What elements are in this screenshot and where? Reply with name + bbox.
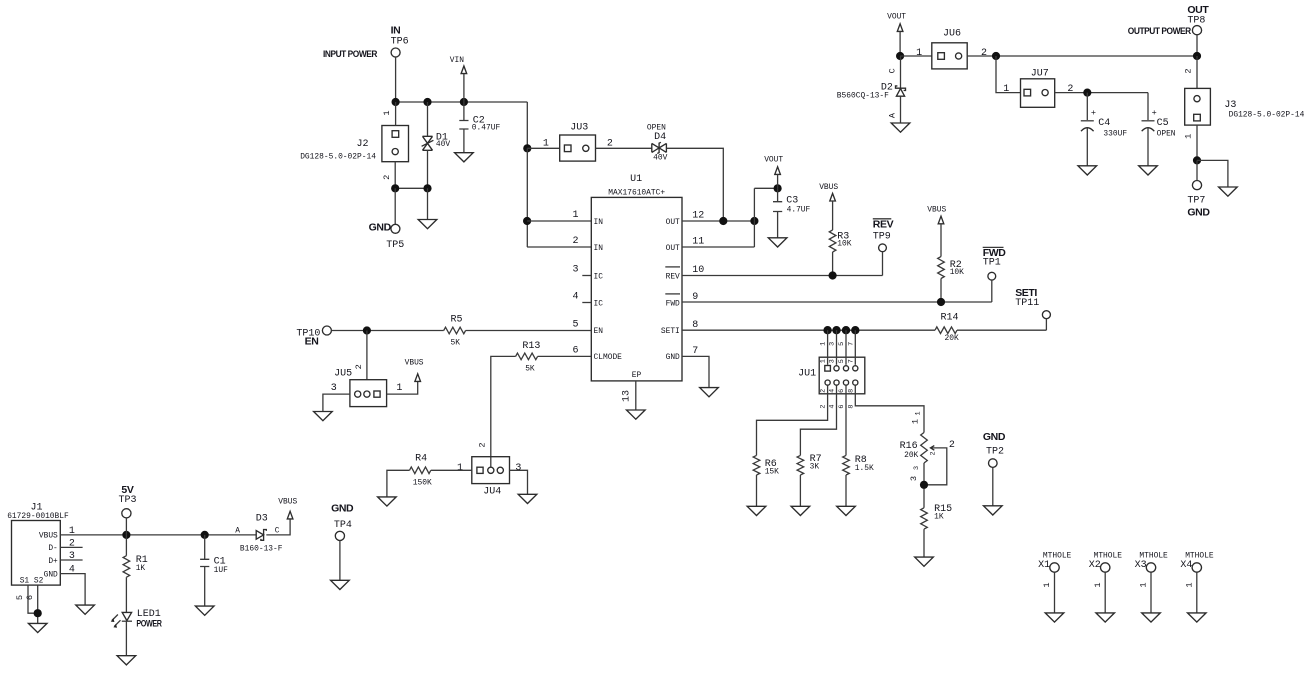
svg-text:VIN: VIN [450,56,464,65]
svg-text:4: 4 [829,405,837,409]
wire TP10 to R5 [331,330,443,332]
wire VIN rail horizontal [396,101,528,103]
wire to U1 pin2 IN [527,246,591,248]
svg-text:5K: 5K [525,365,535,374]
capacitor C3 4.7UF [773,196,811,215]
testpoint TP7 (GND) [1187,160,1210,218]
svg-text:2: 2 [820,405,828,409]
wire JU1 pin8 to R16 [855,385,924,432]
svg-text:1: 1 [572,210,578,221]
svg-text:VBUS: VBUS [819,183,838,192]
testpoint TP3 (5V) [119,484,137,535]
wire SETI to JU1 pin 3 [836,330,838,365]
svg-text:12: 12 [692,211,704,222]
diode D4 bidirectional TVS (OPEN) [647,124,668,163]
wire D1 branch to ground [427,188,429,219]
junction FWD at R2 [937,298,945,306]
svg-text:3: 3 [331,383,337,394]
wire OUT vertical pin11-pin12 [753,188,755,247]
wire JU5 pin3 to ground [314,394,350,421]
wire J1 pin3 stub [60,559,82,561]
wire JU1 pin4 to R7 [800,385,836,455]
junction VOUT node [774,184,782,192]
ground below D1 [418,220,437,229]
svg-text:EN: EN [305,335,319,347]
jumper JU3 [543,123,613,162]
svg-text:GND: GND [369,221,392,233]
wire R14 to TP11 [957,329,1046,331]
svg-text:7: 7 [847,359,855,363]
wire EN branch down to JU5 [366,331,368,380]
resistor R8 1.5K [843,455,874,475]
wire to TP5 [394,188,396,224]
svg-text:2: 2 [949,440,955,451]
svg-text:DG128-5.0-02P-14: DG128-5.0-02P-14 [300,152,376,161]
svg-text:D-: D- [48,544,57,553]
junction EN at JU5 branch [363,326,371,334]
power flag VBUS at R2 [927,206,946,257]
testpoint TP6 (IN) [391,24,409,57]
wire U1 pin10 REV net [682,275,883,277]
svg-text:61729-0010BLF: 61729-0010BLF [7,512,69,521]
wire VOUT node to C3 [777,188,779,201]
svg-text:1: 1 [396,383,402,394]
wire C3 to ground [777,212,779,238]
svg-text:OUT: OUT [666,218,680,227]
wire R13 to U1 pin6 CLMODE [538,355,592,357]
resistor R1 1K [123,535,148,577]
svg-text:EP: EP [632,371,642,380]
svg-text:5: 5 [15,595,25,600]
svg-text:J3: J3 [1224,100,1236,111]
svg-text:7: 7 [847,342,855,346]
junction VIN rail at D1 [423,98,431,106]
svg-text:8: 8 [847,389,855,393]
svg-text:MAX17610ATC+: MAX17610ATC+ [608,188,665,197]
power flag VBUS at R3 [819,183,838,230]
junction VOUT node at D2 [896,52,904,60]
svg-text:1: 1 [1042,582,1052,587]
svg-text:JU1: JU1 [798,368,816,379]
svg-text:IC: IC [594,299,604,308]
junction at C4 [1083,89,1091,97]
wire SETI to JU1 pin 5 [845,330,847,365]
jumper JU6 [916,28,987,69]
svg-text:C: C [275,526,280,535]
svg-text:JU5: JU5 [334,368,352,379]
svg-text:REV: REV [666,272,680,281]
junction SETI at JU1 pin 5 [842,326,850,334]
svg-text:TP7: TP7 [1187,195,1205,206]
svg-text:20K: 20K [904,451,918,460]
resistor R13 5K [516,341,541,374]
wire J2 pin2 [394,162,396,189]
svg-text:20K: 20K [945,334,959,343]
wire SETI to JU1 pin 1 [827,330,829,365]
testpoint TP4 (GND) [331,502,354,589]
wire JU1 pin6 to R8 [845,385,847,455]
svg-text:C: C [888,68,898,73]
svg-text:TP2: TP2 [986,447,1004,458]
mounting hole X2 [1089,551,1122,622]
wire JU4 pin3 to ground [510,470,537,503]
svg-text:VBUS: VBUS [405,359,424,368]
svg-text:JU7: JU7 [1031,68,1049,79]
svg-text:+: + [1091,108,1096,118]
svg-text:CLMODE: CLMODE [594,353,623,362]
svg-text:2: 2 [981,48,987,59]
wire to U1 pin1 IN [527,220,591,222]
testpoint TP8 (OUT) [1128,4,1210,56]
junction OUT at D4 drop [719,217,727,225]
svg-text:4.7UF: 4.7UF [787,206,811,215]
svg-text:1: 1 [915,411,923,415]
resistor R6 15K [753,455,779,476]
svg-text:J2: J2 [356,139,368,150]
wire VIN to C2 [463,102,465,121]
svg-text:JU3: JU3 [570,123,588,134]
svg-text:FWD: FWD [666,299,680,308]
svg-text:3: 3 [515,463,521,474]
wire R4 to JU4 pin1 [431,469,472,471]
svg-text:5: 5 [838,359,846,363]
svg-text:3: 3 [572,265,578,276]
wire TP6 to VIN rail [395,57,397,102]
ground below C3 [768,238,787,247]
wire C2 to ground [463,129,465,153]
junction J3 pin1 gnd node [1193,156,1201,164]
diode D1 bidirectional TVS [422,133,451,151]
svg-text:13: 13 [622,390,633,402]
svg-text:1.5K: 1.5K [855,464,874,473]
svg-text:REV: REV [873,219,894,231]
svg-text:1: 1 [916,48,922,59]
svg-text:7: 7 [692,346,698,357]
junction SETI at JU1 pin 1 [823,326,831,334]
svg-text:OUTPUT POWER: OUTPUT POWER [1128,26,1192,36]
resistor R5 5K [444,314,466,347]
wire SETI to JU1 pin 7 [854,330,856,365]
capacitor C5 OPEN polarized [1139,93,1176,175]
svg-text:U1: U1 [630,174,642,185]
header JU1 [798,342,865,409]
svg-text:X4: X4 [1180,560,1192,571]
svg-text:A: A [235,526,240,535]
svg-text:150K: 150K [413,478,432,487]
svg-text:TP8: TP8 [1187,15,1205,26]
wire JU1 pin2 to R6 [757,385,828,455]
svg-text:2: 2 [382,175,392,180]
svg-text:IN: IN [594,244,604,253]
wire D4 to OUT node [666,148,723,221]
svg-text:1: 1 [543,138,549,149]
svg-text:4: 4 [572,292,578,303]
svg-text:1: 1 [1003,84,1009,95]
svg-text:2: 2 [929,451,937,455]
wire U1 pin9 FWD net [682,301,992,303]
svg-text:GND: GND [331,502,354,514]
svg-text:2: 2 [478,442,488,447]
svg-text:TP9: TP9 [873,232,891,243]
svg-text:TP11: TP11 [1015,298,1039,309]
testpoint TP9 (REV) [873,219,894,276]
svg-text:VBUS: VBUS [278,498,297,507]
svg-text:X2: X2 [1089,560,1101,571]
resistor R3 10K [829,230,851,252]
testpoint TP10 (EN) [296,326,331,347]
power flag VOUT top [887,13,906,56]
svg-text:10: 10 [692,265,704,276]
connector J1 USB 61729-0010BLF [7,503,75,600]
resistor R14 20K [935,312,959,343]
wire U1 pin11 OUT [682,246,754,248]
wire JU3 pin2 to D4 [596,147,652,149]
svg-text:4: 4 [829,389,837,393]
op-amp U1 MAX17610ATC+ (IC body) [572,174,704,381]
svg-text:IC: IC [594,272,604,281]
testpoint TP1 (FWD) [983,247,1007,302]
svg-text:JU4: JU4 [483,486,501,497]
svg-text:1: 1 [910,419,920,424]
svg-text:VBUS: VBUS [39,532,58,541]
wire R16 to R15 [923,463,925,508]
svg-text:C5: C5 [1157,118,1169,129]
mounting hole X1 [1038,551,1071,622]
wire D1 to gnd rail [427,150,429,188]
junction VBUS at TP3 [122,531,130,539]
svg-text:10K: 10K [950,268,964,277]
svg-text:A: A [888,112,898,118]
svg-text:INPUT POWER: INPUT POWER [323,49,378,59]
wire JU7 pin2 to capacitors [1055,92,1148,94]
svg-text:IN: IN [391,24,401,36]
diode D3 B160-13-F [235,514,283,554]
resistor R15 1K [921,504,952,529]
svg-text:1: 1 [820,359,828,363]
svg-text:TP5: TP5 [386,240,404,251]
wire R15 to ground [915,529,934,566]
svg-text:R14: R14 [941,312,959,323]
wire VIN to D1 [427,102,429,136]
diode D2 B560CQ-13-F [837,56,910,132]
wire R4 left to ground [378,470,410,506]
svg-text:TP1: TP1 [983,258,1001,269]
svg-text:GND: GND [666,353,680,362]
junction REV at R3 [829,271,837,279]
svg-text:POWER: POWER [136,618,162,628]
svg-text:8: 8 [692,320,698,331]
svg-text:2: 2 [354,364,364,369]
wire gnd rail J2-D1 [395,187,427,189]
junction OUT at C3 branch [750,217,758,225]
svg-text:OPEN: OPEN [1157,129,1176,138]
wire U1 pin8 SETI to R14 [682,329,935,331]
svg-text:VOUT: VOUT [764,156,783,165]
svg-text:GND: GND [983,431,1006,443]
svg-text:1: 1 [1093,582,1103,587]
svg-text:VBUS: VBUS [927,206,946,215]
resistor R4 150K [410,454,433,488]
svg-text:OUT: OUT [1187,4,1209,16]
junction VIN rail at TP6 drop [392,98,400,106]
wire R3 to REV net [832,252,834,276]
wire VOUT node to JU6 [900,55,932,57]
svg-text:6: 6 [838,405,846,409]
testpoint TP2 (GND) [983,431,1006,515]
wire R8 to ground [837,475,856,516]
svg-text:8: 8 [847,405,855,409]
wire JU6 pin2 to OUT rail [967,55,1197,57]
ground below C2 [455,153,474,162]
svg-text:6: 6 [838,389,846,393]
wire node down to U1 pins [526,148,528,247]
label INPUT POWER [323,49,378,59]
svg-text:R5: R5 [451,314,463,325]
svg-text:TP6: TP6 [391,37,409,48]
svg-text:S1 S2: S1 S2 [20,577,44,586]
svg-text:1K: 1K [136,564,146,573]
svg-text:DG128-5.0-02P-14: DG128-5.0-02P-14 [1229,111,1305,120]
svg-text:JU6: JU6 [943,28,961,39]
svg-text:2: 2 [572,236,578,247]
power flag VBUS after D3 [266,498,297,535]
svg-text:10K: 10K [837,240,851,249]
testpoint TP5 (GND) [369,221,405,251]
svg-text:D+: D+ [48,557,58,566]
resistor R2 10K [938,257,964,279]
capacitor C2 0.47UF [459,116,500,133]
pin 7 GND of U1 to ground [682,356,718,396]
svg-text:3: 3 [829,342,837,346]
jumper JU7 [1003,68,1073,107]
wire J1 pin2 stub [60,546,82,548]
svg-text:B560CQ-13-F: B560CQ-13-F [837,92,889,101]
svg-text:3: 3 [829,359,837,363]
svg-text:3: 3 [909,476,919,481]
pin 13 EP of U1 to ground [622,381,646,419]
svg-text:D3: D3 [256,514,268,525]
svg-text:15K: 15K [765,467,779,476]
power flag VBUS at JU5 pin1 [387,359,424,395]
svg-text:2: 2 [820,389,828,393]
junction VBUS at C1 [201,531,209,539]
svg-text:VOUT: VOUT [887,13,906,22]
resistor R7 3K [797,454,822,475]
wire OUT elbow to C3 node [754,187,777,189]
wire branch down to JU7 [996,56,1021,93]
svg-text:R13: R13 [522,341,540,352]
connector J3 [1183,56,1304,160]
svg-text:5: 5 [572,319,578,330]
svg-text:D4: D4 [654,132,666,143]
svg-text:X1: X1 [1038,560,1050,571]
svg-text:3K: 3K [810,463,820,472]
power flag VIN [450,56,467,102]
svg-text:40V: 40V [653,154,667,163]
wire R7 to ground [791,475,810,516]
junction gnd rail at J2 [391,184,399,192]
jumper JU5 [331,364,403,406]
wire R6 to ground [747,475,766,516]
power flag VOUT at C3 [764,156,783,189]
wire R2 to FWD net [940,279,942,303]
junction node at JU3 input [523,144,531,152]
junction at U1 pin1 [523,217,531,225]
junction OUT rail at JU7 branch [992,52,1000,60]
junction SETI at JU1 pin 7 [851,326,859,334]
junction R16 wiper at R15 [920,481,928,489]
svg-text:2: 2 [1067,84,1073,95]
junction gnd rail at D1 [423,184,431,192]
svg-text:+: + [1152,108,1157,118]
svg-text:1: 1 [382,110,392,115]
svg-text:5K: 5K [451,338,461,347]
wire U1 pin12 OUT [682,220,754,222]
svg-text:11: 11 [692,237,704,248]
svg-text:C4: C4 [1098,118,1110,129]
svg-text:GND: GND [44,570,58,579]
svg-text:1: 1 [820,342,828,346]
svg-text:1: 1 [457,463,463,474]
svg-text:0.47UF: 0.47UF [472,123,501,132]
svg-text:330UF: 330UF [1103,129,1127,138]
connector J2 [300,110,408,179]
svg-text:B160-13-F: B160-13-F [240,544,283,553]
junction OUT rail at J3 [1193,52,1201,60]
LED LED1 POWER [111,577,162,665]
junction VIN rail at C2 [460,98,468,106]
svg-text:R4: R4 [415,454,427,465]
capacitor C4 330UF polarized [1078,93,1127,175]
potentiometer R16 20K [900,433,955,485]
jumper JU4 [457,442,521,497]
mounting hole X3 [1135,551,1168,622]
junction SETI at JU1 pin 3 [832,326,840,334]
wire R13 left to JU4 pin2 [491,356,516,467]
svg-text:6: 6 [25,595,35,600]
mounting hole X4 [1180,551,1213,622]
svg-text:3: 3 [913,466,921,470]
wire J3 gnd node to ground [1197,160,1237,196]
svg-text:IN: IN [594,218,604,227]
svg-text:1: 1 [1185,582,1195,587]
svg-text:2: 2 [1183,68,1193,73]
svg-text:TP3: TP3 [119,495,137,506]
svg-text:1K: 1K [934,512,944,521]
svg-text:SETI: SETI [661,327,680,336]
wire VIN rail corner down to JU3 node [526,102,528,148]
wire R5 to U1 pin5 EN [466,330,592,332]
svg-text:GND: GND [1187,207,1210,219]
svg-text:TP4: TP4 [334,520,352,531]
wire J2 pin1 [395,102,397,126]
svg-text:6: 6 [572,345,578,356]
capacitor C1 1UF [195,535,228,615]
svg-text:EN: EN [594,327,604,336]
svg-text:1UF: 1UF [214,566,228,575]
svg-text:40V: 40V [436,140,450,149]
wire J1 shield pins to ground [28,585,47,633]
svg-text:1: 1 [1183,134,1193,139]
svg-text:1: 1 [1139,582,1149,587]
svg-text:5: 5 [838,342,846,346]
testpoint TP11 (SETI) [1015,287,1050,330]
svg-text:OUT: OUT [666,244,680,253]
svg-text:X3: X3 [1135,560,1147,571]
wire J1 pin4 GND to ground [60,574,94,615]
wire J1 pin1 VBUS rail [60,534,256,536]
wire to JU3 pin1 [527,147,559,149]
